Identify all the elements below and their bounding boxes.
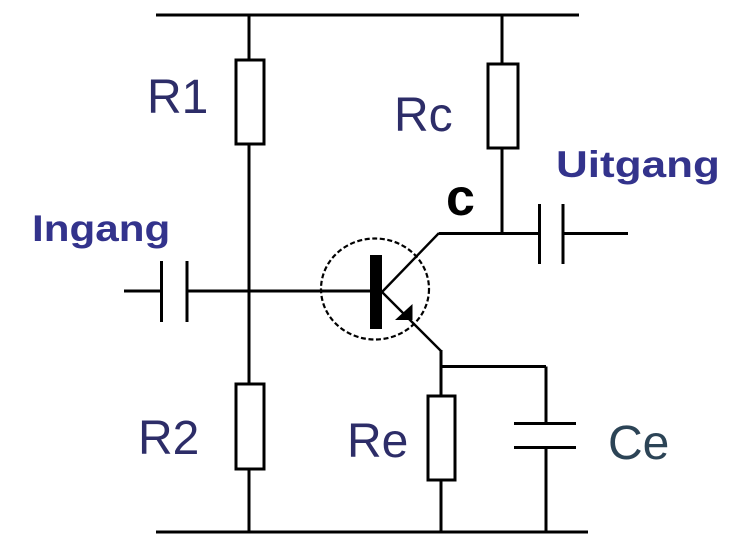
label Re	[347, 418, 408, 466]
capacitor output left plate	[538, 204, 541, 264]
label R2	[138, 415, 199, 463]
node c: collector wire to output cap	[439, 232, 538, 235]
wire top supply rail	[156, 14, 579, 17]
capacitor output right plate	[562, 204, 565, 264]
wire bottom rail	[156, 531, 588, 534]
resistor Re	[428, 396, 455, 480]
transistor Q1 collector lead	[382, 233, 439, 292]
wire emitter to Re	[440, 350, 443, 397]
label R1	[147, 74, 208, 122]
wire R1 to base node and down to R2	[248, 144, 251, 386]
capacitor input right plate	[186, 261, 189, 322]
label Ingang	[32, 210, 170, 247]
wire Rc to collector node	[501, 148, 504, 234]
label Uitgang	[556, 146, 720, 183]
wire emitter node to Ce branch	[441, 365, 546, 368]
wire R2 to bottom rail	[248, 469, 251, 532]
wire Re to bottom rail	[440, 480, 443, 532]
transistor Q1 emitter arrowhead	[395, 304, 413, 320]
wire Ce branch down to Ce top plate	[545, 367, 548, 423]
label Ce	[608, 420, 669, 468]
resistor Rc	[488, 64, 518, 148]
capacitor Ce top plate	[514, 422, 576, 425]
wire top rail to Rc	[501, 15, 504, 66]
capacitor Ce bottom plate	[514, 446, 576, 449]
transistor Q1 emitter lead	[382, 292, 441, 351]
wire top rail to R1	[248, 15, 251, 62]
resistor R1	[236, 60, 264, 144]
capacitor input left plate	[160, 261, 163, 322]
wire base: input cap to transistor base bar	[188, 290, 370, 293]
wire input stub	[124, 290, 160, 293]
wire output stub	[564, 232, 628, 235]
transistor Q1 body circle	[321, 239, 429, 340]
label node c	[446, 172, 475, 224]
wire Ce bottom plate to bottom rail	[545, 449, 548, 532]
label Rc	[394, 92, 453, 140]
resistor R2	[236, 384, 264, 469]
transistor Q1 base bar	[370, 255, 382, 329]
